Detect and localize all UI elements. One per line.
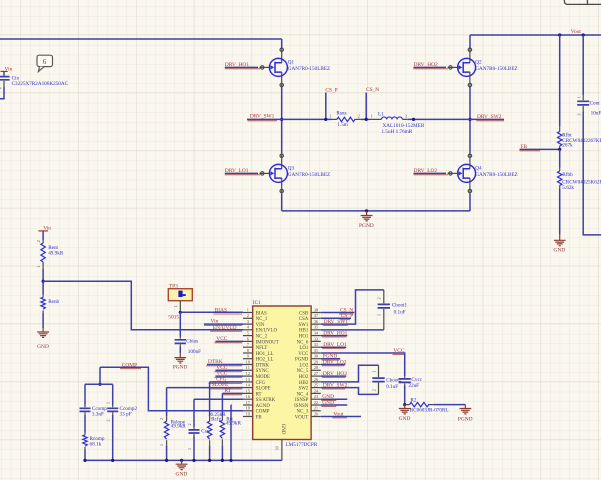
svg-text:22: 22 <box>314 400 318 405</box>
net DRV_LO1 <box>225 168 260 175</box>
svg-text:GAN7R0-150LBEZ: GAN7R0-150LBEZ <box>288 172 330 178</box>
net DRV_LO2 pin29 <box>321 359 347 366</box>
wire Vout rail to Rfbt <box>559 35 561 126</box>
svg-text:MODE: MODE <box>256 375 270 380</box>
wire L1 to SW2 column <box>408 118 504 120</box>
svg-text:HB1: HB1 <box>299 329 309 334</box>
wire Rcomp to bus <box>84 449 86 460</box>
svg-text:LO2: LO2 <box>299 363 309 368</box>
pin 12 MODE <box>243 371 270 380</box>
ground GND divider <box>37 328 49 350</box>
net DRV_LO1 pin32 <box>321 342 347 349</box>
wire HB2 pin26 to Cboot2 <box>321 365 379 382</box>
svg-text:PGND: PGND <box>295 358 309 363</box>
svg-text:10uF: 10uF <box>591 111 601 117</box>
svg-text:GND: GND <box>176 472 188 478</box>
net GND pin23 <box>321 394 348 401</box>
svg-text:RT: RT <box>225 388 232 394</box>
svg-text:Cout: Cout <box>590 101 601 107</box>
wire Q3 source to PGND rail <box>281 194 283 211</box>
capacitor Cboot2 <box>371 365 401 394</box>
svg-text:SLOPE: SLOPE <box>256 387 271 392</box>
svg-text:49.9kR: 49.9kR <box>226 420 242 426</box>
svg-text:11: 11 <box>246 365 250 370</box>
node CS_P <box>324 88 337 121</box>
net SLOPE wire <box>167 382 243 389</box>
pin 27 HO2 <box>299 371 321 380</box>
junction L1 pin2 <box>412 118 415 121</box>
wire Ccomp2 to bus <box>112 415 114 461</box>
pin 15 RT <box>243 388 262 397</box>
transistor Q3 <box>259 153 330 194</box>
svg-text:Vout: Vout <box>333 411 344 417</box>
svg-text:1: 1 <box>187 448 192 450</box>
svg-text:IC1: IC1 <box>253 300 261 306</box>
pin 21 NC_3 <box>297 406 321 415</box>
svg-text:SS/ATRK: SS/ATRK <box>256 398 276 403</box>
svg-text:EN/UVLO: EN/UVLO <box>256 329 278 334</box>
svg-text:COMP: COMP <box>256 410 270 415</box>
wire Rfbb to GND <box>559 189 561 234</box>
pin 2 NC_1 <box>243 313 268 322</box>
pin 37 CSA <box>299 313 321 322</box>
pin 7 NFLT <box>243 342 267 351</box>
svg-text:2: 2 <box>371 389 376 391</box>
net GND pin22 <box>321 400 348 407</box>
title block fragment top right <box>564 0 601 4</box>
svg-text:1: 1 <box>173 305 178 307</box>
pin 22 ISNSN <box>294 400 321 409</box>
ground GND bus <box>176 460 188 477</box>
svg-text:AGND: AGND <box>256 404 271 409</box>
wire Rslope to bus <box>166 445 168 460</box>
svg-text:DRV_HO1: DRV_HO1 <box>225 62 249 68</box>
svg-text:2: 2 <box>247 313 249 318</box>
junction Vout rail / Cout <box>582 33 585 36</box>
pin 18 COMP <box>243 406 270 415</box>
resistor R2 <box>405 397 449 413</box>
svg-text:Rsns: Rsns <box>336 111 346 117</box>
svg-text:Renb: Renb <box>48 299 59 305</box>
svg-text:DRV_LO1: DRV_LO1 <box>323 342 347 348</box>
svg-text:VCC: VCC <box>393 348 404 354</box>
svg-text:NC_5: NC_5 <box>297 369 309 374</box>
capacitor Ccomp <box>80 384 108 417</box>
power port Vin divider <box>38 225 51 240</box>
svg-text:2: 2 <box>106 419 111 421</box>
wire Cout bottom exit <box>583 112 601 235</box>
wire Rent to junction <box>42 269 44 282</box>
svg-text:SYNC: SYNC <box>256 369 269 374</box>
svg-text:Cbias: Cbias <box>186 339 198 345</box>
svg-text:DRV_SW1: DRV_SW1 <box>324 319 349 325</box>
svg-text:SW2: SW2 <box>299 387 309 392</box>
svg-text:IMONOUT: IMONOUT <box>256 340 279 345</box>
svg-text:LO1: LO1 <box>299 346 309 351</box>
ground PGND right of R2 <box>458 405 473 423</box>
svg-text:GAN7R0-150LBEZ: GAN7R0-150LBEZ <box>475 172 517 178</box>
svg-text:Q3: Q3 <box>288 165 295 171</box>
resistor Rent <box>36 240 64 269</box>
svg-text:21: 21 <box>314 406 318 411</box>
pin 33 NC_6 <box>297 336 321 345</box>
net SS/ATRK wire <box>194 398 243 400</box>
pin 36 SW1 <box>299 319 321 328</box>
transistor Q4 <box>448 153 518 194</box>
svg-text:1.5uH 1.76mR: 1.5uH 1.76mR <box>382 129 413 135</box>
svg-text:SW1: SW1 <box>299 323 309 328</box>
net VCC pin6 stub <box>214 336 243 343</box>
svg-text:12: 12 <box>246 371 250 376</box>
junction bus dots <box>83 459 232 462</box>
svg-text:1: 1 <box>159 444 164 446</box>
pin 26 HB2 <box>299 377 321 386</box>
net FB wire <box>520 144 560 151</box>
capacitor Cvcc <box>399 376 423 389</box>
svg-text:2: 2 <box>576 113 581 115</box>
svg-text:1: 1 <box>106 402 111 404</box>
pin 35 HB1 <box>299 325 321 334</box>
wire bottom PGND rail <box>282 210 470 212</box>
net COMP wire <box>100 362 243 411</box>
svg-text:2: 2 <box>187 423 192 425</box>
junction comp split <box>98 383 101 386</box>
pin 8 HO1_LL <box>243 348 274 357</box>
svg-text:GND: GND <box>399 416 411 422</box>
svg-text:HO1_LL: HO1_LL <box>256 352 274 357</box>
wire Renb to GND <box>42 313 44 328</box>
net DRV_HO1 pin34 <box>321 330 348 337</box>
svg-text:VCC: VCC <box>216 336 227 342</box>
wire Q2 drain drop <box>469 35 471 48</box>
svg-text:DRV_LO2: DRV_LO2 <box>414 168 438 174</box>
power port Vin top-left <box>1 66 13 75</box>
svg-text:1: 1 <box>371 371 376 373</box>
wire Rsns to CS_N <box>361 118 370 120</box>
svg-text:1: 1 <box>247 307 249 312</box>
svg-text:DRV_HO2: DRV_HO2 <box>323 371 347 377</box>
wire SW2 column Q2-Q4 <box>469 119 471 153</box>
pin 39 GND pad <box>274 440 282 461</box>
svg-text:Q2: Q2 <box>475 59 482 65</box>
pin 20 VOUT <box>295 411 321 420</box>
net CS_P pin37 <box>321 313 353 320</box>
svg-text:CS_N: CS_N <box>366 87 379 93</box>
callout 6 <box>37 55 53 71</box>
svg-text:CSA: CSA <box>299 317 309 322</box>
ground GND right <box>554 234 566 254</box>
net Vout pin20 <box>321 411 361 418</box>
svg-text:NFLT: NFLT <box>256 346 268 351</box>
svg-text:LM5177DCPR: LM5177DCPR <box>286 442 318 448</box>
svg-text:PGND: PGND <box>173 365 188 371</box>
junction EN divider <box>42 280 45 283</box>
svg-text:NC_2: NC_2 <box>256 335 268 340</box>
svg-text:GAN7R0-150LBEZ: GAN7R0-150LBEZ <box>475 66 517 72</box>
net EN/UVLO <box>210 325 242 331</box>
svg-text:VOUT: VOUT <box>295 415 309 420</box>
wire Cvcc to GND junction <box>404 386 406 405</box>
svg-text:1.5m: 1.5m <box>337 122 348 128</box>
svg-text:HO1: HO1 <box>299 335 309 340</box>
svg-text:DRV_LO1: DRV_LO1 <box>225 168 249 174</box>
svg-text:PGND: PGND <box>359 223 374 229</box>
pin 9 HO2_LL <box>243 354 274 363</box>
junction TP3 / BIAS <box>179 311 182 314</box>
svg-text:33 pF: 33 pF <box>120 412 132 418</box>
capacitor Cbias <box>175 312 202 355</box>
svg-text:2: 2 <box>159 418 164 420</box>
svg-text:0.1uF: 0.1uF <box>386 384 398 390</box>
svg-text:49.9kR: 49.9kR <box>171 424 187 430</box>
svg-text:2: 2 <box>0 87 2 89</box>
net PGND pin30 <box>321 354 341 361</box>
svg-text:CSB: CSB <box>299 311 309 316</box>
svg-text:NC_6: NC_6 <box>297 340 309 345</box>
pin 28 NC_5 <box>297 365 321 374</box>
svg-text:1: 1 <box>377 314 382 316</box>
svg-text:1: 1 <box>329 114 331 119</box>
svg-text:R2: R2 <box>410 397 416 403</box>
svg-text:BIAS: BIAS <box>256 311 267 316</box>
svg-text:FB: FB <box>256 415 263 420</box>
svg-text:5015: 5015 <box>168 315 179 321</box>
junction SW2 <box>468 118 471 121</box>
net DRV_HO1 <box>225 62 260 69</box>
wire Vin top rail <box>0 38 282 40</box>
svg-text:VCC: VCC <box>298 352 308 357</box>
junction Vout rail / Rfbt <box>558 33 561 36</box>
svg-text:GND: GND <box>280 424 285 435</box>
wire GND bus <box>85 459 282 461</box>
capacitor Cout <box>576 95 601 117</box>
svg-text:Css: Css <box>201 429 209 435</box>
net VCC pin11 stub <box>214 365 243 372</box>
wire Vout top rail <box>470 34 601 36</box>
resistor Rfbb <box>558 149 601 191</box>
svg-text:DRV_LO2: DRV_LO2 <box>323 359 347 365</box>
svg-text:HO2: HO2 <box>299 375 309 380</box>
net RT wire <box>222 388 243 395</box>
svg-text:2: 2 <box>405 114 407 119</box>
wire comp split horizontal <box>85 383 113 385</box>
svg-text:DRV_SW1: DRV_SW1 <box>250 114 275 120</box>
junction SW1 <box>280 118 283 121</box>
svg-text:HO2_LL: HO2_LL <box>256 358 274 363</box>
pin 11 SYNC <box>243 365 269 374</box>
svg-text:NC_3: NC_3 <box>297 410 309 415</box>
svg-text:100nF: 100nF <box>188 349 201 355</box>
net DRV_LO2 <box>414 168 449 175</box>
svg-text:DRV_HO1: DRV_HO1 <box>323 330 347 336</box>
svg-text:Q4: Q4 <box>475 165 482 171</box>
svg-text:ISNSN: ISNSN <box>294 404 309 409</box>
pin 4 EN/UVLO <box>243 325 278 334</box>
pin 1 BIAS <box>243 307 267 316</box>
net VCC pin12 stub <box>214 371 243 378</box>
svg-text:Cboot1: Cboot1 <box>392 302 408 308</box>
pin 14 SLOPE <box>243 383 271 392</box>
pin 13 CFG <box>243 377 266 386</box>
resistor Rcomp <box>83 415 105 450</box>
svg-text:2: 2 <box>377 297 382 299</box>
net Vin pin3 stub <box>204 319 243 326</box>
svg-text:GAN7R0-150LBEZ: GAN7R0-150LBEZ <box>288 66 330 72</box>
pin 24 NC_4 <box>297 388 321 397</box>
svg-text:VIN: VIN <box>256 323 265 328</box>
svg-text:HB2: HB2 <box>299 381 309 386</box>
wire Vout rail to Cout <box>582 35 584 95</box>
net VCC pin31 wire <box>321 348 405 376</box>
svg-text:COMP: COMP <box>122 362 137 368</box>
pin 16 SS/ATRK <box>243 394 276 403</box>
net BIAS wire <box>180 307 243 314</box>
wire divider to EN/UVLO pin <box>43 281 243 330</box>
pin 3 VIN <box>243 319 265 328</box>
ground PGND mid bridge <box>359 209 374 229</box>
svg-text:GND: GND <box>554 248 566 254</box>
svg-text:1: 1 <box>36 266 41 268</box>
svg-text:Vout: Vout <box>571 29 582 35</box>
transistor Q1 <box>259 47 330 88</box>
wire Q2 source to SW2 <box>469 87 471 119</box>
node CS_N <box>365 87 380 121</box>
net DRV_HO2 pin27 <box>321 371 348 378</box>
svg-text:6: 6 <box>43 59 47 66</box>
pin 32 LO1 <box>299 342 320 351</box>
pin 23 ISNSP <box>295 394 321 403</box>
net DTRK pin10 stub <box>206 359 243 366</box>
wire Rrt to bus <box>221 445 223 460</box>
svg-text:CFG: CFG <box>216 377 227 383</box>
resistor Rcfg <box>207 382 226 445</box>
svg-text:2: 2 <box>36 240 41 242</box>
resistor Rsns <box>329 111 361 129</box>
pin 34 HO1 <box>299 331 321 340</box>
svg-text:NC_4: NC_4 <box>297 392 309 397</box>
inductor L1 <box>370 112 425 136</box>
svg-text:C3225X7R2A106K250AC: C3225X7R2A106K250AC <box>12 81 69 87</box>
svg-text:RC0603JR-070RL: RC0603JR-070RL <box>410 408 449 414</box>
svg-text:RT: RT <box>256 392 262 397</box>
svg-text:PGND: PGND <box>458 417 473 423</box>
svg-text:Rfbb: Rfbb <box>562 171 573 178</box>
pin 19 FB <box>243 411 262 420</box>
resistor Rrt <box>220 393 241 445</box>
junction VCC/R2/GND <box>403 403 406 406</box>
svg-text:2: 2 <box>358 114 360 119</box>
svg-text:NC_1: NC_1 <box>256 317 268 322</box>
svg-text:DRV_HO2: DRV_HO2 <box>414 62 438 68</box>
net DRV_SW1 pin36 / wire to Cboot1 <box>321 290 384 326</box>
svg-text:DRV_SW2: DRV_SW2 <box>323 382 348 388</box>
wire SW1 column Q1-Q3 <box>281 119 283 153</box>
net CFG wire <box>209 377 243 384</box>
pin 25 SW2 <box>299 383 321 392</box>
pin 5 NC_2 <box>243 331 268 340</box>
svg-text:DTRK: DTRK <box>256 363 270 368</box>
svg-text:CFG: CFG <box>256 381 266 386</box>
svg-text:1: 1 <box>371 114 373 119</box>
svg-text:0.1uF: 0.1uF <box>394 309 406 315</box>
resistor Renb <box>41 281 60 313</box>
capacitor Css <box>187 399 209 450</box>
capacitor Cboot1 <box>377 290 408 330</box>
svg-text:ISNSP: ISNSP <box>295 398 309 403</box>
wire Cin bottom exit <box>0 86 4 99</box>
pin 29 LO2 <box>299 359 320 368</box>
svg-text:CS_P: CS_P <box>325 88 337 94</box>
pin 10 DTRK <box>243 359 269 368</box>
svg-text:267k: 267k <box>562 142 573 148</box>
svg-text:Vin: Vin <box>211 319 219 325</box>
wire Q1 source to SW1 <box>281 87 283 119</box>
svg-text:BIAS: BIAS <box>215 307 227 313</box>
svg-text:49.9kR: 49.9kR <box>48 251 64 257</box>
svg-text:22uF: 22uF <box>408 383 419 389</box>
net DRV_SW2 at bridge <box>476 114 504 121</box>
junction FB node <box>558 148 561 151</box>
svg-text:1: 1 <box>576 96 581 98</box>
net DRV_SW2 pin25 / wire to Cboot2 <box>321 382 379 394</box>
svg-text:Cvcc: Cvcc <box>411 377 422 383</box>
svg-text:L1: L1 <box>378 112 384 118</box>
svg-text:Q1: Q1 <box>288 59 295 65</box>
svg-text:68.1k: 68.1k <box>90 441 102 447</box>
svg-text:FB: FB <box>520 144 527 150</box>
pin 30 PGND <box>295 354 321 363</box>
capacitor Cin <box>0 75 69 89</box>
pin 6 IMONOUT <box>243 336 279 345</box>
svg-text:5.62k: 5.62k <box>562 185 574 191</box>
wire HB1 pin35 to Cboot1 <box>321 329 384 331</box>
testpoint TP3 <box>168 284 192 321</box>
svg-text:DRV_SW2: DRV_SW2 <box>477 114 502 120</box>
svg-text:32: 32 <box>314 342 318 347</box>
svg-text:3.3nF: 3.3nF <box>92 412 104 418</box>
svg-text:39: 39 <box>274 446 279 450</box>
wire Rcfg to bus <box>209 445 211 460</box>
svg-text:31: 31 <box>314 348 318 353</box>
wire R2 to PGND <box>434 404 466 406</box>
wire Css to bus <box>193 436 195 460</box>
ground PGND under Cbias <box>173 347 188 371</box>
pin 17 AGND <box>243 400 270 409</box>
op-amp IC1 LM5177DCPR body <box>253 300 318 448</box>
transistor Q2 <box>448 47 518 88</box>
resistor Rfbt <box>558 126 601 149</box>
capacitor Ccomp2 <box>106 384 138 421</box>
svg-text:GND: GND <box>322 400 334 406</box>
wire Q1 drain drop <box>281 39 283 48</box>
net CS_N pin38 <box>321 307 355 314</box>
net DRV_SW1 row wire <box>247 114 332 121</box>
pin 31 VCC <box>298 348 321 357</box>
net DRV_HO2 <box>414 62 449 69</box>
pin 38 CSB <box>299 307 321 316</box>
wire Q4 source to PGND rail <box>469 194 471 211</box>
svg-text:GND: GND <box>37 344 49 350</box>
wire comp branch vertical <box>99 367 101 384</box>
ground GND under Cvcc <box>399 405 411 423</box>
wire AGND to bus <box>230 405 232 460</box>
resistor Rslope <box>159 388 186 446</box>
